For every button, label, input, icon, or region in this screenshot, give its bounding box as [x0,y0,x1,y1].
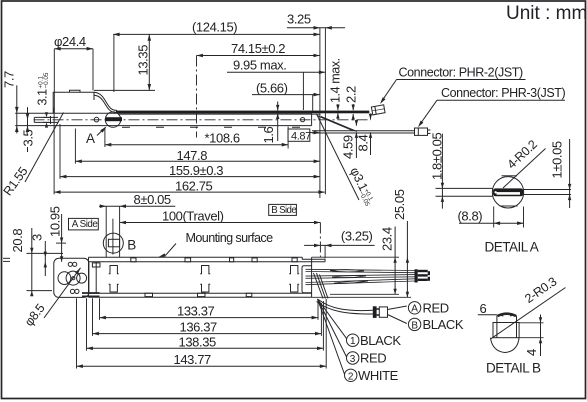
svg-text:−0.05: −0.05 [43,72,50,88]
svg-text:(3.25): (3.25) [341,229,373,244]
svg-text:162.75: 162.75 [175,179,213,194]
label box A Side [69,218,99,230]
label circle-B BLACK [408,318,420,330]
centerline (dash-dot) [34,119,372,121]
svg-text:1±0.05: 1±0.05 [550,141,565,178]
mounting hole B symbol [103,233,123,253]
svg-text:φ8.5: φ8.5 [22,301,48,329]
tape tail end [324,259,326,262]
clip bottom row [109,284,119,292]
tab outer box [493,323,519,338]
svg-text:RED: RED [360,351,386,366]
detail B tab bars [82,292,100,294]
top crimp tabs [131,258,297,262]
body: bracket top tab [70,90,81,92]
label 3 RED [347,352,359,364]
svg-text:A Side: A Side [72,219,99,230]
svg-text:B Side: B Side [271,205,296,216]
body: lower strip top edge [15,112,311,114]
leader to A [388,306,407,310]
body: right end edge [311,113,313,125]
wiper node A circle [105,112,120,127]
inner connector housing [302,266,312,293]
travel end centerline [319,223,321,260]
extension line film start [113,34,115,92]
svg-text:2.2: 2.2 [344,86,359,103]
svg-text:4-R0.2: 4-R0.2 [504,137,540,171]
svg-text:A: A [411,304,418,315]
svg-text:25.05: 25.05 [392,189,407,220]
body: resistive film tape (thick) [116,111,369,114]
leader fan to wire labels [318,299,347,339]
svg-text:23.4: 23.4 [380,227,395,251]
leader 2-R0.3 [491,288,566,339]
svg-text:Connector: PHR-3(JST): Connector: PHR-3(JST) [441,86,566,100]
leader A [97,127,106,135]
svg-text:B: B [127,238,136,253]
svg-text:DETAIL A: DETAIL A [485,240,539,255]
svg-text:155.9±0.3: 155.9±0.3 [169,163,223,178]
svg-text:1: 1 [350,336,356,347]
clip top row [109,266,119,274]
svg-text:A: A [86,131,95,146]
tab bottom arc [490,338,519,353]
svg-text:3.5: 3.5 [21,129,36,146]
step to tape exit [302,257,325,259]
lower body: bottom outer edge [89,296,312,298]
svg-text:1.6: 1.6 [261,126,276,143]
detail A circle [492,177,523,208]
svg-text:13.35: 13.35 [136,45,151,76]
svg-text:1.4 max.: 1.4 max. [329,58,343,103]
svg-text:3.25: 3.25 [287,12,311,27]
left end bracket [54,258,89,297]
svg-text:8±0.05: 8±0.05 [134,192,171,207]
svg-text:3: 3 [350,354,356,365]
svg-text:136.37: 136.37 [180,320,218,335]
bracket ear holes bottom [70,289,74,293]
left mount hole [94,117,99,122]
svg-text:BLACK: BLACK [360,333,401,348]
svg-text:DETAIL B: DETAIL B [486,361,541,376]
lower body: inner left edge [95,262,97,293]
body: lower strip bottom edge [15,125,311,127]
wiper contact bar [106,117,123,121]
svg-text:R1.55: R1.55 [1,164,31,198]
extension 9.95 feature [302,72,304,110]
svg-text:Connector: PHR-2(JST): Connector: PHR-2(JST) [399,66,524,80]
svg-text:3.1: 3.1 [36,89,50,106]
label 2 WHITE [345,369,357,381]
bottom crimp tabs [145,293,252,296]
rod groove ticks [50,116,52,124]
svg-text:Mounting surface: Mounting surface [186,231,274,245]
svg-text:2: 2 [348,371,354,382]
svg-text:7.7: 7.7 [2,71,17,88]
extension line tape-end left [319,28,321,198]
actuating rod [34,116,58,118]
svg-text:74.15±0.2: 74.15±0.2 [231,41,285,56]
wire pair to PHR-2 (lower) [318,299,373,311]
svg-text:(8.8): (8.8) [458,209,483,224]
svg-text:*108.6: *108.6 [205,131,240,146]
lower body: top outer edge [89,256,303,258]
svg-text:6: 6 [480,301,487,316]
svg-text:100(Travel): 100(Travel) [162,209,224,224]
svg-text:(124.15): (124.15) [192,20,237,35]
right mount hole [301,118,305,122]
extension lines to frame left [3,257,10,259]
rod dia extension marks [43,116,50,118]
section edge lines left [436,187,493,189]
label box B Side [269,204,297,215]
connector PHR-3 plug (upper view) [415,128,428,135]
leader 4-R0.2 [503,149,546,189]
body: hidden bottom dashes [122,126,310,128]
body: left bracket block [53,92,94,113]
label 1 BLACK [347,334,359,346]
svg-text:20.8: 20.8 [10,229,25,253]
section edge lines right [524,189,572,191]
cable to PHR-3 (upper view) [312,130,415,132]
bracket ear holes top [68,262,72,266]
boxed ref dim 4.87 [288,129,310,141]
svg-text:B: B [411,320,418,331]
lower body: bottom inner edge [89,292,312,294]
svg-text:BLACK: BLACK [423,317,464,332]
svg-text:4.87: 4.87 [291,130,311,142]
svg-text:133.37: 133.37 [177,304,215,319]
leader PHR-2 [381,80,396,102]
body: film underline [118,113,320,115]
tab inner walls [496,316,498,338]
tab crimp arc (thick) [498,314,517,316]
extension line tape-end right [324,28,326,195]
lower body: right edge [311,257,313,297]
film section bar [493,188,523,196]
label circle-A RED [408,302,420,314]
svg-text:Unit : mm: Unit : mm [506,3,587,24]
wiper center line (dash-dot vertical) [196,56,198,138]
svg-text:138.35: 138.35 [179,334,217,349]
extension 5.66 feature [312,95,314,111]
svg-text:4: 4 [524,349,539,356]
left extension lines [76,298,78,368]
svg-text:WHITE: WHITE [358,368,399,383]
svg-text:(5.66): (5.66) [256,80,288,95]
svg-text:9.95 max.: 9.95 max. [233,58,287,73]
dim 3.1 +0.1/-0.05 (rod dia) [36,72,51,105]
connector PHR-2 plug (lower) [373,306,377,318]
svg-text:RED: RED [423,301,449,316]
body: film ramp curve [94,92,117,110]
lower body: top inner edge [89,261,326,263]
leader φ8.5 [44,268,81,318]
top chord [502,175,518,177]
svg-text:2-R0.3: 2-R0.3 [522,274,559,306]
svg-text:4.59: 4.59 [341,135,356,159]
leader PHR-3 [420,100,438,125]
svg-text:143.77: 143.77 [174,352,212,367]
bottom chord [500,205,518,207]
lower body: left edge [88,257,90,297]
svg-text:φ24.4: φ24.4 [54,34,86,49]
wires to PHR-3 (lower) [306,269,415,284]
connector PHR-2 plug (upper view) [371,105,385,115]
svg-text:8.4: 8.4 [356,134,371,151]
rod boss circles [58,272,71,285]
right extension lines [317,301,319,320]
leader to B [388,315,407,324]
connector PHR-3 plug (lower, black) [415,269,418,282]
svg-text:147.8: 147.8 [177,148,208,163]
leader φ3.1 rod dia note [317,114,360,200]
wire bundle crossing [314,273,324,299]
svg-text:10.95: 10.95 [48,206,63,237]
